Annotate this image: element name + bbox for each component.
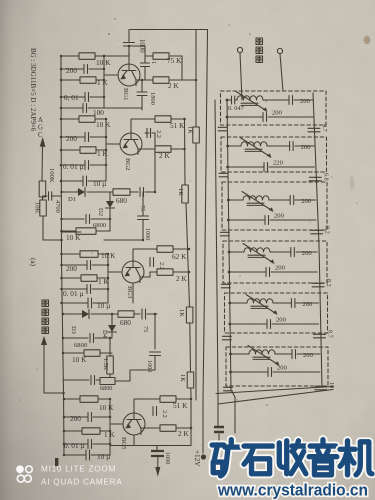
capacitor bottom x219 bbox=[214, 427, 224, 432]
capacitor 1000 det2 bbox=[150, 352, 161, 356]
svg-text:200: 200 bbox=[301, 198, 312, 205]
resistor 2K stage4 bbox=[160, 425, 176, 432]
capacitor 1000 output bbox=[156, 446, 158, 451]
wire BG1 collector bbox=[128, 46, 130, 64]
resistor 2K stage1 bbox=[145, 79, 153, 81]
capacitor 2.2 stage3 bbox=[150, 258, 154, 267]
wire AGC bottom bbox=[43, 216, 62, 240]
wire bottom rail stage4 bbox=[110, 435, 191, 446]
resistor 1K stage4 bbox=[64, 430, 82, 432]
svg-text:1: 1 bbox=[150, 61, 157, 64]
svg-text:1K: 1K bbox=[177, 188, 184, 196]
coupling capacitor right 3 8.2 bbox=[311, 230, 323, 234]
svg-text:0. 047: 0. 047 bbox=[228, 105, 244, 112]
wire stage1 base column bbox=[104, 56, 118, 108]
svg-text:10 K: 10 K bbox=[72, 355, 87, 364]
terminal blob bottom bbox=[201, 454, 206, 459]
resistor 51K stage4 bbox=[160, 396, 176, 403]
wire stage4 base column bbox=[110, 399, 123, 455]
capacitor 2.2 stage2 bbox=[145, 132, 149, 134]
terminal 1 bbox=[237, 47, 242, 52]
filter section box 6 (dashed) bbox=[226, 347, 328, 386]
capacitor 200 second row S3 bbox=[228, 219, 265, 221]
small mark left bottom bbox=[55, 458, 58, 466]
capacitor 200 coil row S1 bbox=[263, 99, 289, 101]
diode D3 bbox=[82, 310, 89, 318]
svg-text:1 K: 1 K bbox=[97, 78, 108, 87]
wire BG2 collector bbox=[131, 119, 155, 133]
svg-text:6800: 6800 bbox=[74, 342, 88, 349]
resistor 1K vertical busB bbox=[195, 30, 197, 128]
svg-text:8.2: 8.2 bbox=[324, 226, 331, 234]
svg-text:10 µ: 10 µ bbox=[93, 179, 106, 188]
capacitor 200 second row S2 bbox=[228, 166, 264, 168]
wire bottom drop x203 bbox=[202, 400, 204, 453]
diode D4 vertical bbox=[111, 314, 113, 325]
capacitor 200 stage2 bbox=[61, 136, 85, 138]
svg-text:0. 01 µ: 0. 01 µ bbox=[63, 289, 84, 298]
svg-text:+12V: +12V bbox=[193, 450, 201, 467]
capacitor 0.01u stage4 bbox=[64, 443, 88, 445]
svg-text:1K: 1K bbox=[179, 374, 186, 382]
capacitor 6800 bbox=[62, 218, 85, 220]
resistor 10K det1 bbox=[62, 230, 77, 232]
coupling capacitor left 1 bbox=[218, 127, 227, 131]
coupling capacitor left 5 bbox=[222, 336, 231, 340]
svg-text:100K: 100K bbox=[48, 168, 55, 183]
wire BG2 emitter bbox=[138, 148, 155, 150]
wire top rail bbox=[130, 30, 208, 401]
svg-text:200: 200 bbox=[66, 66, 77, 75]
svg-text:MI10 LITE ZOOM: MI10 LITE ZOOM bbox=[41, 465, 116, 474]
resistor 1K vertical busA bbox=[182, 185, 189, 203]
coupling capacitor right 6 10 bbox=[315, 386, 327, 390]
svg-text:51 K: 51 K bbox=[170, 121, 185, 130]
wire stage2 base column bbox=[106, 119, 120, 181]
watermark char shi bbox=[244, 446, 273, 474]
resistor 680 det2 bbox=[91, 313, 118, 315]
svg-text:(a): (a) bbox=[29, 258, 37, 267]
svg-text:4.7: 4.7 bbox=[321, 124, 328, 132]
svg-text:www.crystalradio.cn: www.crystalradio.cn bbox=[217, 481, 368, 500]
wire bottom drop x219 bbox=[217, 392, 219, 426]
svg-text:D2: D2 bbox=[97, 208, 104, 216]
svg-text:D3: D3 bbox=[70, 326, 77, 334]
svg-text:C: C bbox=[38, 132, 43, 139]
capacitor 1 stage1 bbox=[144, 56, 146, 63]
wire D1 to 680 bbox=[87, 191, 113, 193]
watermark char yin bbox=[309, 440, 337, 475]
diode D1 bbox=[78, 188, 85, 196]
wire stage3 rows bbox=[62, 253, 81, 255]
svg-text:0. 01 µ: 0. 01 µ bbox=[64, 441, 85, 450]
capacitor 200 stage1 bbox=[61, 68, 84, 70]
svg-text:8.2: 8.2 bbox=[325, 279, 332, 287]
capacitor 10u stage2 bbox=[61, 180, 83, 182]
svg-text:200: 200 bbox=[274, 213, 285, 220]
wire left bus bbox=[61, 56, 64, 455]
capacitor 200 coil row S2 bbox=[267, 145, 290, 147]
svg-text:680: 680 bbox=[120, 318, 131, 327]
coupling capacitor left 3 bbox=[220, 232, 229, 236]
filter section box 2 (dashed) bbox=[221, 137, 327, 172]
stain top right bbox=[364, 36, 371, 44]
coil L5 bbox=[230, 302, 247, 304]
capacitor 1000 det1 bbox=[142, 192, 144, 216]
svg-text:62 K: 62 K bbox=[172, 252, 187, 261]
filter section box 4 (dashed) bbox=[223, 241, 327, 283]
capacitor 200 second row S1 bbox=[227, 116, 263, 118]
resistor 10K stage3 bbox=[62, 231, 82, 233]
indicator arrow up bbox=[44, 345, 64, 393]
svg-text:6.8: 6.8 bbox=[322, 173, 329, 181]
wire feed left bbox=[227, 100, 231, 390]
capacitor 100 stage1 bbox=[61, 107, 83, 109]
svg-text:6800: 6800 bbox=[100, 385, 112, 392]
capacitor 0.01u stage2 bbox=[61, 164, 85, 166]
watermark char ji bbox=[340, 441, 372, 475]
svg-text:BG5: BG5 bbox=[120, 437, 127, 450]
svg-text:51 K: 51 K bbox=[173, 401, 188, 410]
capacitor 200 second row S6 bbox=[231, 371, 269, 373]
coil L4 bbox=[229, 251, 244, 253]
coil L2 bbox=[228, 145, 241, 147]
svg-text:D4: D4 bbox=[101, 330, 108, 339]
filter section box 5 (dashed) bbox=[225, 293, 328, 333]
svg-text:1000: 1000 bbox=[144, 228, 151, 240]
capacitor 0.01 stage1 bbox=[61, 96, 85, 98]
svg-text:1800: 1800 bbox=[149, 92, 156, 105]
resistor 10K vertical bbox=[40, 200, 47, 216]
AGC arrow up bbox=[41, 146, 44, 181]
wire bus D bbox=[215, 100, 218, 392]
wire 75K right link bbox=[169, 56, 196, 80]
svg-text:D1: D1 bbox=[68, 196, 76, 203]
capacitor 75 bbox=[130, 191, 138, 193]
wire bottom drop x235 bbox=[231, 390, 235, 433]
capacitor 6800 det2 bbox=[63, 337, 88, 339]
resistor 1K vertical busA low bbox=[187, 372, 194, 388]
svg-text:1K: 1K bbox=[178, 309, 185, 317]
svg-text:200: 200 bbox=[303, 352, 314, 359]
capacitor 1800 bbox=[141, 80, 143, 92]
svg-text:2.2: 2.2 bbox=[155, 130, 162, 138]
resistor 1K stage1 bbox=[61, 79, 80, 81]
wire stage2 vert x155 bbox=[154, 133, 156, 192]
wire AGC mid bbox=[42, 197, 44, 200]
svg-text:1K: 1K bbox=[187, 126, 194, 134]
wire terminal1 lead bbox=[240, 53, 242, 100]
coupling capacitor right 1 4.7 bbox=[308, 128, 320, 132]
resistor 51K stage2 bbox=[155, 116, 171, 123]
wire BG5 emitter bbox=[141, 427, 160, 429]
svg-text:G: G bbox=[38, 125, 43, 132]
watermark char kuang bbox=[212, 440, 241, 476]
coupling capacitor left 6 bbox=[223, 387, 232, 391]
svg-text:10 K: 10 K bbox=[101, 251, 116, 260]
diode D2 vertical bbox=[109, 192, 111, 201]
svg-text:10 K: 10 K bbox=[96, 120, 111, 129]
resistor 680 bbox=[113, 189, 130, 196]
capacitor 0.01u stage3 bbox=[62, 288, 88, 290]
wire stage3 base column bbox=[108, 254, 122, 303]
coil L6 bbox=[231, 353, 250, 355]
transistor BG5 bbox=[123, 413, 145, 435]
svg-text:200: 200 bbox=[70, 414, 81, 423]
wire BG5 collector bbox=[134, 399, 160, 413]
svg-text:75: 75 bbox=[142, 326, 149, 332]
capacitor 2.2 stage4 bbox=[153, 407, 157, 416]
svg-text:0, 01: 0, 01 bbox=[64, 93, 79, 102]
svg-text:BG : 3DG11B×5 D : 2AP9×6: BG : 3DG11B×5 D : 2AP9×6 bbox=[29, 48, 37, 132]
capacitor 200 coil row S4 bbox=[270, 251, 291, 253]
coil L3 bbox=[228, 199, 243, 201]
svg-text:10 K: 10 K bbox=[99, 403, 114, 412]
capacitor 200 second row S4 bbox=[229, 271, 266, 273]
svg-text:4700: 4700 bbox=[54, 200, 61, 213]
capacitor 200 coil row S5 bbox=[273, 302, 291, 304]
svg-text:200: 200 bbox=[276, 317, 287, 324]
capacitor 200 stage3 bbox=[62, 264, 88, 266]
resistor 62K stage3 bbox=[157, 246, 173, 253]
wire BG3 collector bbox=[133, 249, 157, 261]
resistor 1.5K vertical bbox=[109, 338, 111, 356]
svg-text:10 K: 10 K bbox=[66, 233, 81, 242]
svg-text:220: 220 bbox=[273, 160, 284, 167]
resistor 1K stage2 bbox=[61, 149, 80, 151]
capacitor 200 stage4 bbox=[64, 416, 88, 418]
wire filter bottom rail bbox=[216, 387, 333, 394]
resistor 1K vertical busA mid bbox=[186, 307, 193, 323]
svg-text:AI QUAD CAMERA: AI QUAD CAMERA bbox=[41, 478, 122, 487]
svg-text:2 K: 2 K bbox=[178, 429, 189, 438]
svg-text:200: 200 bbox=[301, 144, 312, 151]
junction dots bbox=[60, 55, 63, 58]
wire x155 detector2 bbox=[154, 314, 156, 349]
label field-strength (vertical CJK) bbox=[42, 300, 49, 307]
resistor 10K stage2 bbox=[61, 118, 79, 120]
resistor 2K stage3 bbox=[157, 269, 173, 276]
coupling capacitor right 2 6.8 bbox=[309, 177, 321, 181]
svg-text:200: 200 bbox=[275, 265, 286, 272]
transistor BG1 bbox=[118, 64, 140, 86]
terminal 2 bbox=[277, 48, 282, 53]
svg-text:200: 200 bbox=[300, 98, 311, 105]
filter section box 3 (dashed) bbox=[222, 182, 327, 230]
svg-text:2.2: 2.2 bbox=[161, 410, 168, 418]
svg-text:1000: 1000 bbox=[146, 360, 153, 372]
resistor 75K bbox=[131, 46, 153, 56]
svg-text:200: 200 bbox=[66, 134, 77, 143]
svg-text:10 µ: 10 µ bbox=[97, 452, 110, 461]
resistor 10K stage1 bbox=[61, 55, 79, 57]
capacitor det2 bottom bbox=[63, 379, 89, 381]
resistor 2K stage2 bbox=[155, 146, 171, 153]
resistor 10K row2 stage3 bbox=[80, 251, 98, 257]
wire bus right stage4 bbox=[190, 395, 192, 446]
resistor 100K vertical bbox=[39, 181, 46, 197]
label filter (vertical CJK) bbox=[256, 38, 263, 45]
coupling capacitor right 4 8.2 bbox=[312, 283, 324, 287]
svg-text:200: 200 bbox=[277, 365, 288, 372]
transistor BG2 bbox=[120, 133, 142, 155]
svg-text:200: 200 bbox=[66, 264, 77, 273]
wire BG3 emitter bbox=[133, 272, 157, 303]
capacitor C1 1000 top bbox=[128, 30, 130, 43]
svg-text:BG2: BG2 bbox=[124, 158, 131, 170]
resistor 10K det2 bbox=[63, 352, 84, 354]
photo specks bbox=[19, 18, 357, 457]
wire BG1 emitter down bbox=[136, 80, 145, 86]
wire terminal2 lead bbox=[280, 54, 283, 91]
svg-text:2 K: 2 K bbox=[159, 151, 170, 160]
svg-text:0. 01 µ: 0. 01 µ bbox=[63, 162, 84, 171]
svg-text:10K: 10K bbox=[34, 202, 41, 214]
capacitor 200 coil row S6 bbox=[275, 353, 292, 355]
output arrow down bbox=[157, 457, 159, 468]
wire feed right bbox=[313, 93, 322, 387]
transistor BG3 bbox=[122, 261, 144, 283]
wire D2 down bbox=[109, 208, 111, 219]
capacitor 200 second row S5 bbox=[230, 323, 267, 325]
svg-text:1000: 1000 bbox=[164, 452, 171, 464]
filter section box 1 (dashed) bbox=[221, 91, 327, 125]
capacitor 75 det2 bbox=[134, 313, 140, 315]
resistor 1K stage3 bbox=[62, 277, 82, 279]
svg-text:2 K: 2 K bbox=[176, 274, 187, 283]
svg-text:1.5K: 1.5K bbox=[102, 358, 109, 371]
svg-text:A: A bbox=[38, 117, 43, 124]
capacitor 200 coil row S3 bbox=[269, 199, 290, 201]
capacitor 10u stage3 bbox=[62, 302, 89, 304]
coupling capacitor right 5 8.7 bbox=[313, 334, 325, 338]
wire detector2 row bbox=[63, 313, 82, 315]
svg-text:200: 200 bbox=[302, 301, 313, 308]
svg-text:75 K: 75 K bbox=[167, 56, 182, 65]
resistor 10K stage4 bbox=[64, 398, 80, 400]
coupling capacitor left 4 bbox=[221, 284, 230, 288]
svg-text:200: 200 bbox=[272, 110, 283, 117]
capacitor 10u stage4 bbox=[64, 454, 86, 456]
watermark char shou bbox=[279, 441, 306, 474]
wire filter bottom rail 2 bbox=[218, 390, 333, 405]
svg-text:200: 200 bbox=[302, 250, 313, 257]
coupling capacitor left 2 bbox=[219, 173, 228, 177]
svg-text:680: 680 bbox=[116, 196, 127, 205]
coil L1 bbox=[227, 99, 232, 101]
capacitor 4700 bbox=[43, 195, 48, 197]
wire 10K row stage3 to column bbox=[98, 253, 108, 255]
svg-text:BG1: BG1 bbox=[122, 88, 129, 100]
wire bus A bbox=[185, 119, 192, 395]
svg-text:BG3: BG3 bbox=[126, 286, 133, 299]
resistor 6800 det2b bbox=[100, 378, 115, 385]
watermark camera logo bbox=[16, 465, 32, 482]
svg-text:8.7: 8.7 bbox=[326, 330, 333, 338]
svg-text:2 K: 2 K bbox=[168, 81, 179, 90]
wire detector1 row bbox=[62, 191, 79, 193]
